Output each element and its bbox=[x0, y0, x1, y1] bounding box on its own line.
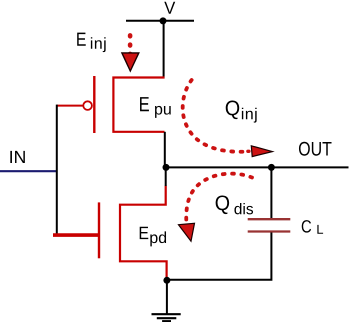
wire capacitor top lead bbox=[270, 167, 272, 218]
arrow E inj (red dashed, down) bbox=[128, 35, 133, 57]
wire capacitor bottom lead and bottom rail bbox=[167, 233, 271, 280]
node capacitor junction bbox=[268, 164, 275, 171]
arrow Q dis (red dashed arc down) bbox=[186, 174, 252, 221]
label IN bbox=[10, 151, 25, 163]
wire OUT rail bbox=[166, 166, 349, 168]
label Q inj bbox=[226, 101, 239, 120]
label E inj bbox=[77, 33, 86, 46]
ground bbox=[166, 280, 168, 314]
label OUT bbox=[299, 142, 332, 156]
label Q dis bbox=[216, 195, 229, 214]
node V label bbox=[164, 2, 175, 14]
transistor NMOS channel bracket bbox=[120, 186, 167, 279]
node V junction bbox=[160, 17, 167, 24]
wire out node to NMOS drain bbox=[165, 167, 167, 186]
transistor PMOS bubble bbox=[83, 101, 92, 110]
capacitor CL plates bbox=[248, 218, 291, 220]
arrow Q inj (red dashed arc to OUT) bbox=[183, 80, 249, 152]
wire gate vertical bbox=[56, 105, 58, 234]
transistor NMOS gate bar bbox=[98, 202, 100, 258]
transistor PMOS gate bar bbox=[93, 76, 95, 133]
label E pu bbox=[140, 97, 149, 111]
node OUT junction bbox=[163, 164, 170, 171]
wire top rail bbox=[126, 20, 194, 22]
wire PMOS gate lead bbox=[57, 105, 84, 107]
transistor PMOS channel bracket bbox=[113, 78, 164, 132]
transistor NMOS thick gate lead bbox=[53, 233, 100, 237]
node ground junction bbox=[163, 277, 170, 284]
wire IN input (navy) bbox=[0, 170, 57, 172]
label C L bbox=[302, 220, 311, 233]
label E pd bbox=[140, 227, 149, 239]
wire PMOS drain to out node bbox=[164, 132, 166, 168]
wire V stem bbox=[163, 21, 165, 79]
